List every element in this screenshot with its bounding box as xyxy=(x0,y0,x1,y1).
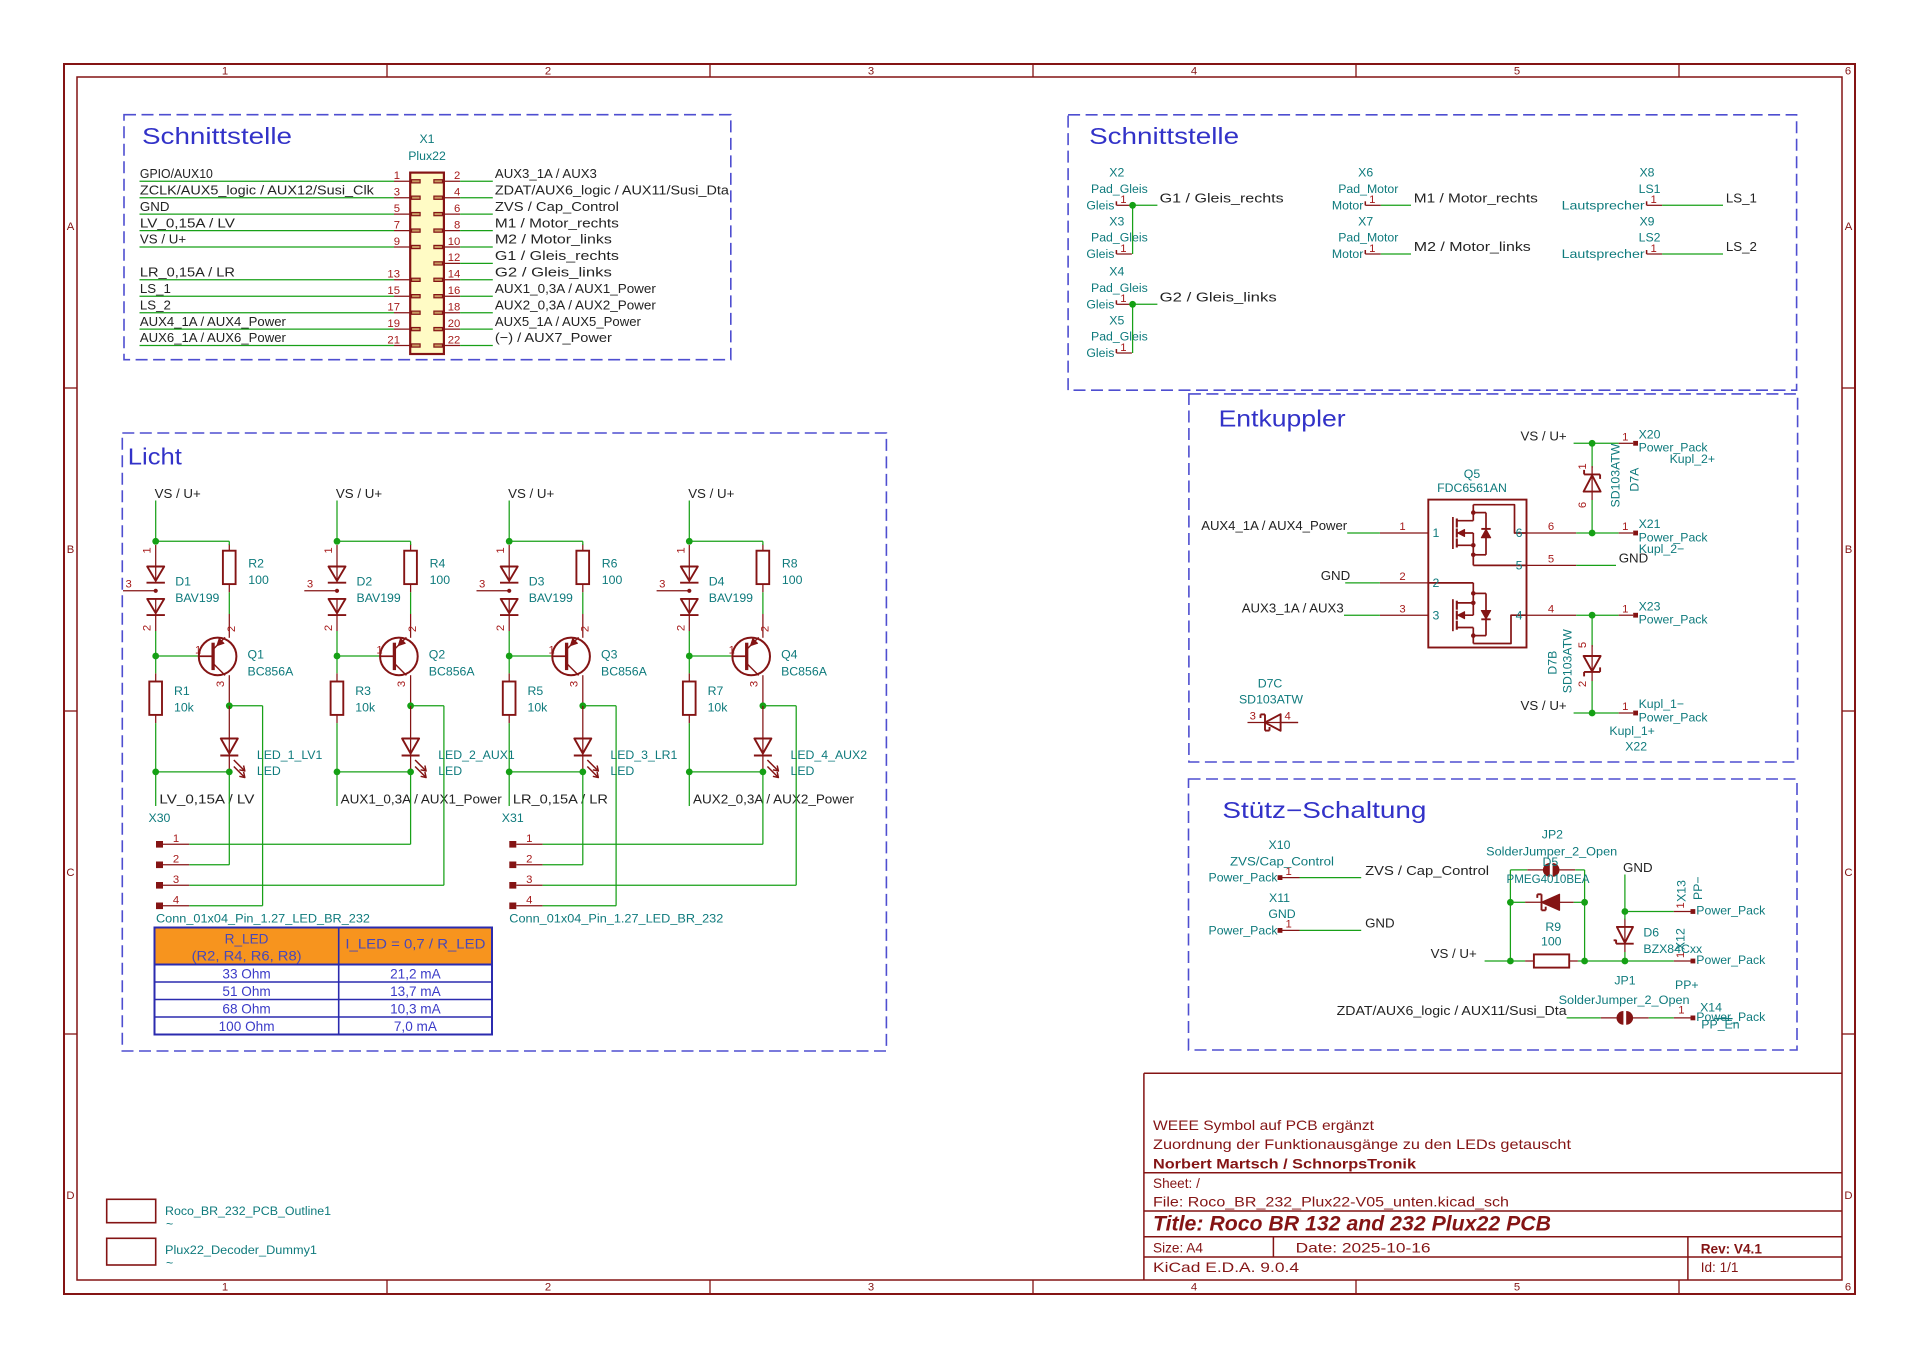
svg-text:LED_1_LV1: LED_1_LV1 xyxy=(257,748,323,762)
svg-text:ZVS / Cap_Control: ZVS / Cap_Control xyxy=(495,199,619,214)
diode D3 pin 3 line (circuit 3) xyxy=(477,590,510,592)
svg-text:D7C: D7C xyxy=(1258,677,1283,691)
svg-text:D3: D3 xyxy=(529,575,545,589)
svg-text:22: 22 xyxy=(448,334,461,346)
wire X31 pin 1 vertical xyxy=(762,772,764,844)
X1 pin 8 line xyxy=(444,230,460,232)
wire diode to base junction (circuit 2) xyxy=(336,631,338,656)
svg-text:Stütz−Schaltung: Stütz−Schaltung xyxy=(1222,797,1426,823)
svg-text:1: 1 xyxy=(1650,194,1656,206)
svg-text:Power_Pack: Power_Pack xyxy=(1209,871,1279,885)
svg-text:BC856A: BC856A xyxy=(429,664,476,678)
transistor Q2 collector pin (circuit 2) xyxy=(410,675,412,706)
svg-text:D7A: D7A xyxy=(1628,467,1642,492)
frame row tick left 1 xyxy=(64,387,77,389)
X1 pin 13 inner stub xyxy=(412,278,421,281)
X10 pin 1 line xyxy=(1282,877,1300,879)
svg-text:7,0 mA: 7,0 mA xyxy=(394,1019,438,1034)
Q5 internal source A to pin 5 xyxy=(1473,564,1526,566)
svg-text:GND: GND xyxy=(1623,860,1653,875)
X1 pin 15 line xyxy=(394,295,410,297)
svg-text:13: 13 xyxy=(387,269,400,281)
wire to bottom net label (circuit 1) xyxy=(155,772,157,806)
junction X4 xyxy=(1129,301,1136,308)
svg-text:LED: LED xyxy=(791,764,815,778)
svg-text:68 Ohm: 68 Ohm xyxy=(222,1002,270,1017)
frame row tick left 2 xyxy=(64,710,77,712)
svg-text:BAV199: BAV199 xyxy=(357,591,401,605)
svg-text:1: 1 xyxy=(1622,432,1628,444)
wire to X1 pin 3 xyxy=(140,197,395,199)
svg-text:3: 3 xyxy=(868,66,874,78)
wire to bottom net label (circuit 4) xyxy=(688,772,690,806)
svg-text:LR_0,15A / LR: LR_0,15A / LR xyxy=(140,265,235,280)
wire VS to X22 xyxy=(1574,712,1619,714)
svg-text:3: 3 xyxy=(659,578,665,590)
LED LED_3_LR1 (circuit 3) xyxy=(574,739,591,754)
svg-text:LR_0,15A / LR: LR_0,15A / LR xyxy=(513,792,608,807)
svg-text:1: 1 xyxy=(1369,194,1375,206)
wire X20 junction to D7A xyxy=(1591,443,1593,468)
wire bottom row (circuit 2) xyxy=(337,771,411,773)
transistor Q3 collector pin (circuit 3) xyxy=(582,675,584,706)
wire bus X2-X3 xyxy=(1132,205,1134,254)
wire base junction to transistor (circuit 2) xyxy=(337,655,379,657)
wire VS to junction (circuit 1) xyxy=(155,501,157,542)
wire R1 to bottom junction (circuit 1) xyxy=(155,723,157,772)
LED pin from collector junction (circuit 4) xyxy=(762,706,764,739)
pin below R4 (circuit 2) xyxy=(410,584,412,592)
wire X8 to LS_1 label xyxy=(1662,204,1723,206)
svg-text:R8: R8 xyxy=(782,557,798,571)
svg-text:Roco_BR_232_PCB_Outline1: Roco_BR_232_PCB_Outline1 xyxy=(165,1204,331,1218)
svg-text:PP+: PP+ xyxy=(1675,978,1699,992)
X1 pin 2 inner stub xyxy=(434,180,443,183)
frame row tick left 3 xyxy=(64,1033,77,1035)
svg-text:2: 2 xyxy=(1433,576,1440,590)
svg-text:2: 2 xyxy=(545,1282,551,1294)
svg-text:AUX5_1A / AUX5_Power: AUX5_1A / AUX5_Power xyxy=(495,314,642,329)
Q5 pin 3 line xyxy=(1380,614,1428,616)
X30 pin 3 line xyxy=(163,884,189,886)
wire to X1 pin 13 xyxy=(140,279,395,281)
svg-text:10k: 10k xyxy=(708,701,729,715)
svg-text:M1 / Motor_rechts: M1 / Motor_rechts xyxy=(1414,191,1538,206)
svg-text:Schnittstelle: Schnittstelle xyxy=(1089,123,1239,149)
X1 pin 5 line xyxy=(394,213,410,215)
jumper JP1 symbol xyxy=(1601,1017,1617,1019)
X1 pin 17 inner stub xyxy=(412,311,421,314)
wire pin4 to X23 xyxy=(1576,614,1619,616)
svg-text:10,3 mA: 10,3 mA xyxy=(390,1002,442,1017)
svg-text:D1: D1 xyxy=(175,575,191,589)
svg-text:ZVS/Cap_Control: ZVS/Cap_Control xyxy=(1230,854,1334,868)
X1 pin 4 line xyxy=(444,197,460,199)
svg-text:1: 1 xyxy=(1622,521,1628,533)
wire R5 to bottom junction (circuit 3) xyxy=(508,723,510,772)
svg-text:1: 1 xyxy=(1675,902,1687,908)
svg-text:AUX1_0,3A / AUX1_Power: AUX1_0,3A / AUX1_Power xyxy=(341,792,503,807)
svg-text:2: 2 xyxy=(323,625,335,631)
svg-text:SD103ATW: SD103ATW xyxy=(1561,629,1575,693)
wire X7 to M2 label xyxy=(1381,253,1411,255)
svg-text:3: 3 xyxy=(568,681,580,687)
svg-text:51 Ohm: 51 Ohm xyxy=(222,984,270,999)
wire R8 to Q emitter (circuit 4) xyxy=(762,592,764,614)
svg-text:VS / U+: VS / U+ xyxy=(1431,946,1477,961)
svg-text:2: 2 xyxy=(454,170,460,182)
wire from X1 pin 16 xyxy=(460,295,493,297)
resistor R6 (circuit 3) xyxy=(576,551,589,584)
svg-text:AUX3_1A / AUX3: AUX3_1A / AUX3 xyxy=(1242,600,1344,615)
frame column tick top 5 xyxy=(1678,64,1680,77)
Q5 pin 5 line xyxy=(1527,564,1577,566)
frame row tick right 1 xyxy=(1842,387,1855,389)
diode D3 pin 2 line (circuit 3) xyxy=(508,615,510,631)
resistor R3 (circuit 2) xyxy=(331,682,344,715)
mosfet body diode xyxy=(1481,528,1490,530)
X6 pin 1 line xyxy=(1365,204,1381,206)
svg-text:GND: GND xyxy=(1619,551,1649,566)
svg-text:100: 100 xyxy=(430,573,451,587)
diode D1 upper diode (circuit 1) xyxy=(147,567,164,581)
wire R2 to Q emitter (circuit 1) xyxy=(228,592,230,614)
mosfet body diode bottom jog xyxy=(1485,593,1487,610)
svg-text:Licht: Licht xyxy=(128,444,183,470)
svg-text:LED_4_AUX2: LED_4_AUX2 xyxy=(791,748,868,762)
jumper JP2 symbol xyxy=(1527,869,1543,871)
symbol Roco_BR_232_PCB_Outline1 body xyxy=(107,1199,156,1222)
svg-text:1: 1 xyxy=(1120,293,1126,305)
resistor R5 bottom pin (circuit 3) xyxy=(508,715,510,723)
X4 pin 1 line xyxy=(1116,303,1132,305)
svg-text:3: 3 xyxy=(1433,608,1440,622)
diode D7B (SD103ATW) xyxy=(1591,645,1593,656)
svg-text:Power_Pack: Power_Pack xyxy=(1696,953,1766,967)
X1 pin 17 line xyxy=(394,312,410,314)
diode D4 pin 2 line (circuit 4) xyxy=(688,615,690,631)
svg-text:D5: D5 xyxy=(1543,855,1559,869)
svg-text:B: B xyxy=(67,544,75,556)
diode D1 pin 2 line (circuit 1) xyxy=(155,615,157,631)
svg-text:Date: 2025-10-16: Date: 2025-10-16 xyxy=(1296,1241,1431,1256)
svg-text:Id: 1/1: Id: 1/1 xyxy=(1701,1260,1739,1275)
mosfet drain junction dot xyxy=(1471,633,1476,638)
junction X20 xyxy=(1589,440,1596,447)
X31 pin 2 pad xyxy=(509,862,516,869)
svg-text:Power_Pack: Power_Pack xyxy=(1639,613,1709,627)
X1 pin 15 inner stub xyxy=(412,295,421,298)
diode D5 (PMEG4010BEA) schottky xyxy=(1510,901,1525,903)
wire X30 pin 2 horizontal xyxy=(189,864,229,866)
X1 pin 12 inner stub xyxy=(434,262,443,265)
svg-text:1: 1 xyxy=(675,547,687,553)
svg-text:AUX2_0,3A / AUX2_Power: AUX2_0,3A / AUX2_Power xyxy=(693,792,855,807)
svg-text:LV_0,15A / LV: LV_0,15A / LV xyxy=(159,792,254,807)
svg-text:X31: X31 xyxy=(502,811,524,825)
wire top to resistor branch (circuit 1) xyxy=(156,540,230,542)
svg-text:100: 100 xyxy=(248,573,269,587)
frame column tick top 2 xyxy=(709,64,711,77)
svg-text:16: 16 xyxy=(448,285,461,297)
svg-text:3: 3 xyxy=(479,578,485,590)
svg-text:1: 1 xyxy=(1622,603,1628,615)
transistor Q3 base pin line (circuit 3) xyxy=(551,655,566,657)
wire JP2 left xyxy=(1510,869,1527,871)
junction D5 left xyxy=(1507,899,1514,906)
svg-text:Lautsprecher: Lautsprecher xyxy=(1562,247,1645,261)
wire X31 pin 2 vertical xyxy=(582,772,584,865)
LED bottom pin (circuit 2) xyxy=(410,756,412,772)
svg-text:Gleis: Gleis xyxy=(1086,346,1114,360)
resistor R3 top pin (circuit 2) xyxy=(336,673,338,681)
svg-text:C: C xyxy=(1844,867,1852,879)
wire to X1 pin 9 xyxy=(140,246,395,248)
svg-text:2: 2 xyxy=(1577,681,1589,687)
mosfet drain leg xyxy=(1472,628,1474,644)
svg-text:D: D xyxy=(66,1190,74,1202)
Q5 pin 2 line xyxy=(1380,582,1428,584)
svg-text:1: 1 xyxy=(222,66,228,78)
X1 pin 19 inner stub xyxy=(412,328,421,331)
mosfet middle contact with arrow xyxy=(1457,614,1474,616)
resistor R1 (circuit 1) xyxy=(149,682,162,715)
X1 pin 1 inner stub xyxy=(412,180,421,183)
svg-text:Rev: V4.1: Rev: V4.1 xyxy=(1701,1241,1763,1256)
svg-text:G2 / Gleis_links: G2 / Gleis_links xyxy=(1160,290,1277,305)
svg-text:Conn_01x04_Pin_1.27_LED_BR_232: Conn_01x04_Pin_1.27_LED_BR_232 xyxy=(156,912,370,926)
Q5 pin 6 line xyxy=(1527,532,1577,534)
svg-text:15: 15 xyxy=(387,285,400,297)
LED LED_1_LV1 (circuit 1) xyxy=(221,739,238,754)
wire JP1 to X14 xyxy=(1649,1017,1674,1019)
junction D5 right xyxy=(1581,899,1588,906)
svg-text:Power_Pack: Power_Pack xyxy=(1209,923,1279,937)
svg-text:21: 21 xyxy=(387,334,400,346)
svg-text:X11: X11 xyxy=(1269,891,1290,905)
wire base junction to R3 (circuit 2) xyxy=(336,656,338,673)
X30 pin 1 pad xyxy=(156,841,163,848)
svg-text:BC856A: BC856A xyxy=(781,664,828,678)
mosfet body diode top jog xyxy=(1473,512,1486,514)
svg-text:5: 5 xyxy=(1548,554,1554,566)
svg-text:BC856A: BC856A xyxy=(601,664,648,678)
X30 pin 2 pad xyxy=(156,862,163,869)
svg-text:X22: X22 xyxy=(1625,740,1647,754)
transistor Q4 base pin line (circuit 4) xyxy=(731,655,746,657)
svg-text:LED: LED xyxy=(610,764,634,778)
X1 pin 22 line xyxy=(444,345,460,347)
svg-text:Size: A4: Size: A4 xyxy=(1153,1241,1203,1256)
wire X30 pin 4 vertical xyxy=(262,706,264,906)
table row line xyxy=(155,999,493,1001)
wire base junction to transistor (circuit 1) xyxy=(156,655,198,657)
svg-text:3: 3 xyxy=(526,874,532,886)
wire X10 to ZVS label xyxy=(1300,877,1362,879)
wire pin6 junction to X21 xyxy=(1576,532,1619,534)
wire X31 pin 1 horizontal xyxy=(543,843,763,845)
svg-text:18: 18 xyxy=(448,302,461,314)
svg-text:BAV199: BAV199 xyxy=(709,591,753,605)
svg-text:AUX4_1A / AUX4_Power: AUX4_1A / AUX4_Power xyxy=(1201,518,1348,533)
wire AUX3 to Q5 pin 3 xyxy=(1344,614,1380,616)
svg-text:1: 1 xyxy=(1286,866,1292,878)
wire R3 to bottom junction (circuit 2) xyxy=(336,723,338,772)
wire to X1 pin 5 xyxy=(140,213,395,215)
wire/pin into R2 (circuit 1) xyxy=(228,544,230,551)
resistor R8 (circuit 4) xyxy=(757,551,770,584)
LED pin from collector junction (circuit 2) xyxy=(410,706,412,739)
svg-text:~: ~ xyxy=(166,1256,173,1270)
title block divider rev column xyxy=(1687,1237,1689,1280)
junction X2 xyxy=(1129,202,1136,209)
svg-text:G1 / Gleis_rechts: G1 / Gleis_rechts xyxy=(1160,191,1284,206)
title block divider below comments xyxy=(1144,1172,1842,1174)
wire/pin into R4 (circuit 2) xyxy=(410,544,412,551)
svg-text:19: 19 xyxy=(387,318,400,330)
svg-text:M1 / Motor_rechts: M1 / Motor_rechts xyxy=(495,215,619,230)
mosfet channel segments xyxy=(1456,601,1458,610)
X1 pin 10 inner stub xyxy=(434,245,443,248)
svg-text:Gleis: Gleis xyxy=(1086,198,1114,212)
wire collector junction stub right (circuit 2) xyxy=(411,705,444,707)
mosfet drain leg xyxy=(1472,505,1474,521)
svg-text:AUX2_0,3A / AUX2_Power: AUX2_0,3A / AUX2_Power xyxy=(495,297,657,312)
Q5 internal source B to pin 2 xyxy=(1428,582,1473,584)
X1 pin 3 inner stub xyxy=(412,196,421,199)
X1 pin 3 line xyxy=(394,197,410,199)
junction bottom left (circuit 4) xyxy=(686,769,693,776)
transistor Q1 emitter pin (circuit 1) xyxy=(228,614,230,638)
pin below R2 (circuit 1) xyxy=(228,584,230,592)
svg-text:M2 / Motor_links: M2 / Motor_links xyxy=(1414,239,1531,254)
svg-text:Lautsprecher: Lautsprecher xyxy=(1562,198,1645,212)
transistor Q1 base pin line (circuit 1) xyxy=(198,655,213,657)
svg-text:~: ~ xyxy=(166,1217,173,1231)
svg-text:6: 6 xyxy=(1516,526,1523,540)
svg-text:Sheet: /: Sheet: / xyxy=(1153,1176,1200,1191)
svg-text:1: 1 xyxy=(1369,243,1375,255)
mosfet drain junction dot xyxy=(1471,510,1476,515)
svg-text:KiCad E.D.A. 9.0.4: KiCad E.D.A. 9.0.4 xyxy=(1153,1260,1300,1275)
wire GND down to X13 junction xyxy=(1624,875,1626,912)
svg-text:LED: LED xyxy=(438,764,462,778)
diode D2 pin 1 line (circuit 2) xyxy=(336,545,338,567)
svg-text:21,2 mA: 21,2 mA xyxy=(390,967,442,982)
title block outline xyxy=(1144,1073,1842,1279)
junction X13 xyxy=(1622,908,1629,915)
wire bottom row (circuit 3) xyxy=(509,771,583,773)
pin below R8 (circuit 4) xyxy=(762,584,764,592)
diode D2 pin 2 line (circuit 2) xyxy=(336,615,338,631)
diode D2 internal junction (circuit 2) xyxy=(335,589,339,593)
wire X31 pin 3 vertical xyxy=(795,706,797,886)
wire collector junction stub right (circuit 3) xyxy=(583,705,616,707)
LED bottom pin (circuit 4) xyxy=(762,756,764,772)
diode D6 top pin xyxy=(1624,919,1626,927)
junction R9 right xyxy=(1581,958,1588,965)
LED bottom pin (circuit 3) xyxy=(582,756,584,772)
X31 pin 2 line xyxy=(516,864,542,866)
dashed group box Stuetz-Schaltung xyxy=(1189,779,1798,1050)
title block divider below file xyxy=(1144,1210,1842,1212)
svg-text:VS / U+: VS / U+ xyxy=(155,486,201,501)
wire from X1 pin 6 xyxy=(460,213,493,215)
svg-text:G1 / Gleis_rechts: G1 / Gleis_rechts xyxy=(495,248,619,263)
dashed group box Licht xyxy=(122,433,886,1051)
transistor Q1 BC856A (circuit 1) xyxy=(199,638,237,676)
svg-text:X8: X8 xyxy=(1639,166,1654,180)
LED pin from collector junction (circuit 3) xyxy=(582,706,584,739)
junction R9 left xyxy=(1507,958,1514,965)
X30 pin 1 line xyxy=(163,843,189,845)
wire/pin into R6 (circuit 3) xyxy=(582,544,584,551)
transistor Q2 BC856A (circuit 2) xyxy=(380,638,418,676)
svg-text:LED_3_LR1: LED_3_LR1 xyxy=(610,748,677,762)
wire AUX4 to Q5 pin 1 xyxy=(1347,532,1380,534)
X1 pin 7 inner stub xyxy=(412,229,421,232)
svg-text:PMEG4010BEA: PMEG4010BEA xyxy=(1507,872,1591,886)
svg-text:SD103ATW: SD103ATW xyxy=(1239,693,1303,707)
svg-text:3: 3 xyxy=(396,681,408,687)
junction X21 xyxy=(1589,530,1596,537)
wire diode to base junction (circuit 4) xyxy=(688,631,690,656)
frame column tick bottom 5 xyxy=(1678,1280,1680,1294)
wire base junction to R5 (circuit 3) xyxy=(508,656,510,673)
svg-text:G2 / Gleis_links: G2 / Gleis_links xyxy=(495,265,612,280)
svg-text:2: 2 xyxy=(407,626,419,632)
svg-text:2: 2 xyxy=(545,66,551,78)
svg-text:GND: GND xyxy=(1321,568,1351,583)
wire diode to base junction (circuit 3) xyxy=(508,631,510,656)
svg-text:Q5: Q5 xyxy=(1464,467,1481,481)
svg-text:6: 6 xyxy=(454,203,460,215)
X1 pin 22 inner stub xyxy=(434,344,443,347)
wire D6 junction to X12 pin xyxy=(1625,960,1674,962)
frame column tick top 1 xyxy=(386,64,388,77)
wire from X1 pin 20 xyxy=(460,328,493,330)
svg-text:12: 12 xyxy=(448,252,461,264)
svg-text:JP1: JP1 xyxy=(1614,974,1635,988)
wire from X1 pin 22 xyxy=(460,345,493,347)
svg-text:PP−: PP− xyxy=(1691,876,1705,900)
wire VS to junction (circuit 3) xyxy=(508,501,510,542)
wire from X1 pin 4 xyxy=(460,197,493,199)
junction collector (circuit 4) xyxy=(760,702,767,709)
svg-text:X1: X1 xyxy=(419,132,434,146)
svg-text:VS / U+: VS / U+ xyxy=(1521,429,1567,444)
wire X4 to G2 label xyxy=(1132,303,1158,305)
wire X30 pin 1 horizontal xyxy=(189,843,410,845)
svg-text:VS / U+: VS / U+ xyxy=(508,486,554,501)
svg-text:BAV199: BAV199 xyxy=(529,591,573,605)
table body xyxy=(155,965,493,1035)
svg-text:SD103ATW: SD103ATW xyxy=(1609,443,1623,507)
svg-text:JP2: JP2 xyxy=(1542,828,1563,842)
transistor Q3 BC856A (circuit 3) xyxy=(552,638,590,676)
svg-text:Power_Pack: Power_Pack xyxy=(1696,903,1766,917)
wire to bottom net label (circuit 3) xyxy=(508,772,510,806)
mosfet body-source bus xyxy=(1472,583,1474,615)
svg-text:GND: GND xyxy=(140,199,170,214)
mosfet bottom contact xyxy=(1457,602,1474,604)
svg-text:R1: R1 xyxy=(174,684,190,698)
X5 pin 1 line xyxy=(1116,352,1132,354)
svg-text:9: 9 xyxy=(394,236,400,248)
svg-text:2: 2 xyxy=(759,626,771,632)
mosfet Q5 body xyxy=(1428,500,1526,648)
diode D6 (BZX84Cxx zener) xyxy=(1617,927,1633,943)
